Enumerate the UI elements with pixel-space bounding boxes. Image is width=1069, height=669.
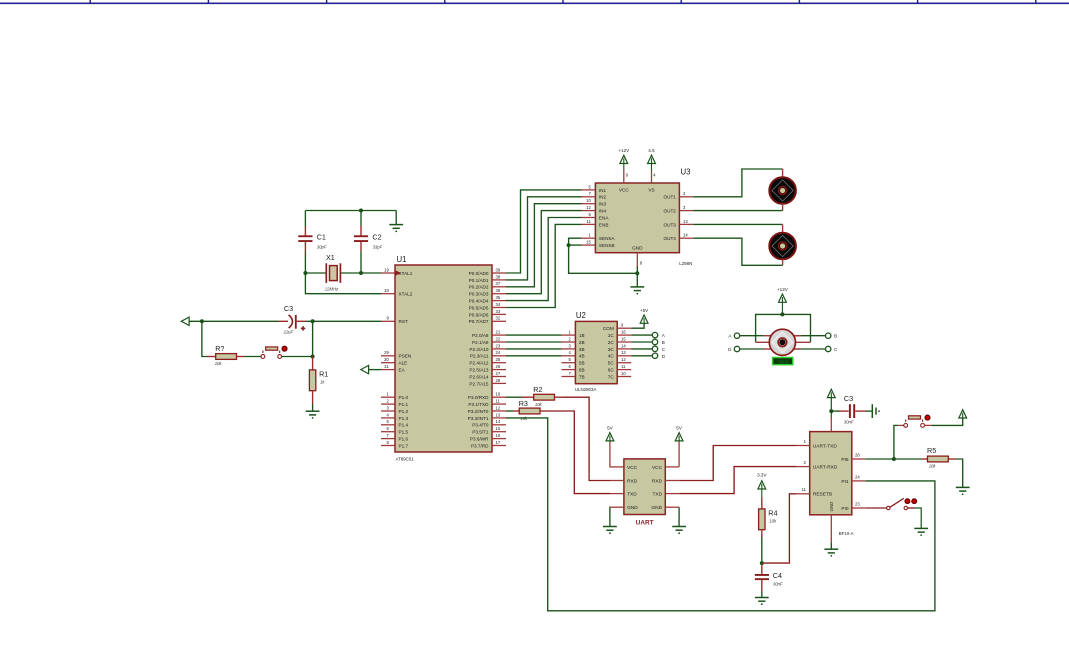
- svg-text:10k: 10k: [535, 402, 543, 407]
- svg-text:BF10-A: BF10-A: [839, 531, 854, 536]
- svg-text:13: 13: [496, 412, 501, 417]
- wire P0.3 to U3 IN: [506, 211, 582, 294]
- svg-text:1C: 1C: [608, 333, 615, 338]
- svg-text:11: 11: [586, 219, 591, 224]
- U1 pin 7 P1.6 stub: [381, 438, 395, 440]
- svg-text:27: 27: [496, 371, 501, 376]
- node RST-left junction: [200, 319, 204, 323]
- svg-text:VCC: VCC: [627, 465, 638, 471]
- U2 pin 9 COM stub: [617, 327, 631, 329]
- capacitor C5 (30nF decoupling): [849, 404, 855, 418]
- U3 pin 14 OUT4 stub: [679, 237, 693, 239]
- input terminal (RST net): [181, 317, 189, 325]
- svg-text:B: B: [834, 334, 837, 339]
- U1 pin 14 P3.4/T0 stub: [492, 424, 506, 426]
- U1 pin 15 P3.5/T1 stub: [492, 431, 506, 433]
- U1 pin 16 P3.6/WR stub: [492, 438, 506, 440]
- svg-text:22uF: 22uF: [283, 330, 294, 335]
- svg-text:TXD: TXD: [652, 492, 662, 498]
- svg-text:+5V: +5V: [640, 308, 649, 313]
- wire U2 4C to terminal D: [631, 355, 652, 357]
- svg-text:29: 29: [384, 350, 389, 355]
- UART left pin TXD stub: [610, 493, 624, 495]
- capacitor C4 bottom lead: [761, 580, 763, 592]
- svg-text:C2: C2: [372, 233, 381, 242]
- resistor R3 left lead: [513, 410, 519, 412]
- svg-text:28: 28: [496, 378, 501, 383]
- svg-text:11: 11: [496, 399, 501, 404]
- svg-text:R4: R4: [768, 508, 777, 517]
- svg-text:4.5: 4.5: [648, 148, 655, 153]
- ground (UART right): [672, 527, 686, 535]
- svg-text:12MHz: 12MHz: [325, 287, 339, 292]
- U1 pin 17 P3.7/RD stub: [492, 445, 506, 447]
- svg-text:P3.1/TXD: P3.1/TXD: [468, 402, 489, 407]
- svg-text:16: 16: [496, 433, 501, 438]
- svg-text:TXD: TXD: [627, 492, 637, 498]
- svg-text:SENSB: SENSB: [599, 243, 615, 248]
- U1 pin 8 P1.7 stub: [381, 445, 395, 447]
- svg-text:ENB: ENB: [599, 222, 609, 227]
- svg-text:22: 22: [496, 336, 501, 341]
- wire U3 VS power stem: [651, 164, 653, 170]
- svg-text:GND: GND: [651, 505, 662, 511]
- wire P0.2 to U3 IN: [506, 204, 582, 287]
- wire UART VCC-left to 5V: [609, 441, 611, 467]
- svg-text:SENSA: SENSA: [599, 236, 616, 241]
- svg-text:P1.2: P1.2: [399, 409, 409, 414]
- wire sense to gnd rail: [569, 245, 638, 273]
- resistor R3: [519, 408, 540, 414]
- U3 pin 9 VCC stub: [623, 170, 625, 184]
- ground (module): [824, 549, 838, 557]
- resistor R4 top lead: [761, 498, 763, 509]
- wire PI5 to R5: [865, 458, 921, 460]
- svg-text:10k: 10k: [929, 464, 937, 469]
- wire R1 to ground: [312, 404, 314, 411]
- svg-text:30nF: 30nF: [773, 582, 783, 587]
- wire to ground right: [395, 211, 397, 225]
- svg-text:OUT1: OUT1: [664, 195, 677, 200]
- module bottom pin stub: [830, 515, 832, 543]
- U1 pin 34 P0.5/AD5 stub: [492, 307, 506, 309]
- U1 pin 9 RST stub: [381, 320, 395, 322]
- module top pin stub: [830, 418, 832, 432]
- svg-text:P1.3: P1.3: [399, 416, 409, 421]
- resistor R? right lead: [237, 356, 245, 358]
- U2 pin 15 2C stub: [617, 341, 631, 343]
- U2 pin 13 4C stub: [617, 355, 631, 357]
- mcu U1 body: [395, 265, 492, 452]
- svg-text:R5: R5: [927, 446, 936, 455]
- power (PI5 button): [959, 410, 967, 418]
- svg-text:15: 15: [586, 240, 591, 245]
- U1 pin 35 P0.4/AD4 stub: [492, 300, 506, 302]
- svg-text:36: 36: [496, 288, 501, 293]
- U1 pin 32 P0.7/AD7 stub: [492, 320, 506, 322]
- node button/R1 junction: [311, 355, 315, 359]
- svg-text:24: 24: [855, 474, 860, 479]
- wire R3 to UART TXD: [547, 411, 610, 494]
- svg-text:33pF: 33pF: [373, 244, 383, 249]
- svg-text:ENA: ENA: [599, 215, 609, 220]
- svg-text:25: 25: [496, 357, 501, 362]
- crystal X1 left lead: [305, 272, 326, 274]
- ground (R5): [956, 487, 970, 495]
- driver U3 body: [595, 183, 679, 253]
- U1 pin 26 P2.5/A13 stub: [492, 369, 506, 371]
- node C1/X1/XTAL2 junction: [303, 271, 307, 275]
- resistor R2: [534, 394, 555, 400]
- svg-text:AT89C51: AT89C51: [396, 457, 415, 462]
- svg-text:13: 13: [621, 350, 626, 355]
- svg-text:30: 30: [384, 357, 389, 362]
- input terminal (EA): [361, 365, 369, 373]
- svg-text:7C: 7C: [608, 374, 615, 379]
- U3 pin 5 IN1 stub: [582, 189, 596, 191]
- U2 pin 14 3C stub: [617, 348, 631, 350]
- motor M1 (DC): [769, 177, 796, 204]
- svg-text:C1: C1: [317, 233, 326, 242]
- wire stepper common rail: [756, 314, 811, 342]
- terminal A: [734, 333, 739, 338]
- U1 pin 30 ALE stub: [381, 362, 395, 364]
- terminal B: [826, 333, 831, 338]
- wire stepper to B: [794, 335, 826, 337]
- svg-text:PI5: PI5: [841, 457, 849, 463]
- svg-text:VCC: VCC: [619, 188, 629, 193]
- wire P3.0 to R2: [506, 396, 522, 398]
- U3 pin 2 OUT1 stub: [679, 196, 693, 198]
- wire stepper to C: [794, 348, 826, 350]
- svg-text:UART-RXD: UART-RXD: [813, 465, 838, 471]
- svg-text:RXD: RXD: [652, 478, 663, 484]
- svg-text:+12V: +12V: [777, 287, 789, 292]
- U3 pin 12 IN4 stub: [582, 210, 596, 212]
- svg-text:24: 24: [496, 350, 501, 355]
- ground (UART left): [603, 527, 617, 535]
- wire U2 1C to terminal A: [631, 334, 652, 336]
- motor2 top pin: [782, 224, 784, 233]
- U1 pin 10 P3.0/RXD stub: [492, 396, 506, 398]
- U1 pin 4 P1.3 stub: [381, 417, 395, 419]
- power 5V (UART right): [675, 433, 683, 441]
- capacitor C1: [298, 235, 312, 242]
- bluetooth module U4 body: [810, 432, 852, 515]
- wire OUT3 to motor2: [693, 223, 782, 225]
- svg-text:R?: R?: [215, 344, 224, 353]
- resistor R1 bottom lead: [312, 391, 314, 404]
- U2 pin 12 5C stub: [617, 362, 631, 364]
- wire P3.2 to R3: [506, 410, 513, 412]
- U3 pin 1 SENSA stub: [582, 237, 596, 239]
- stepper motor body: [769, 329, 795, 355]
- terminal A (U2 out): [652, 332, 657, 337]
- svg-text:P3.4/T0: P3.4/T0: [472, 423, 489, 428]
- capacitor C3 (polarized): [289, 315, 297, 329]
- UART left pin GND stub: [610, 506, 624, 508]
- U3 pin 4 VS stub: [651, 170, 653, 184]
- svg-text:IN2: IN2: [599, 195, 607, 200]
- power +5V (U2 COM): [640, 315, 648, 323]
- wire UART VCC-right to 5V: [678, 441, 680, 467]
- svg-text:31: 31: [384, 364, 389, 369]
- U1 pin 5 P1.4 stub: [381, 424, 395, 426]
- wire motor1 to OUT2: [693, 210, 782, 212]
- node top-rail/C2 junction: [359, 209, 363, 213]
- uart module body: [624, 459, 665, 515]
- svg-text:30nF: 30nF: [844, 420, 854, 425]
- wire A to stepper: [740, 335, 763, 337]
- svg-text:IN4: IN4: [599, 209, 607, 214]
- capacitor C2: [354, 235, 368, 242]
- svg-text:P0.2/AD2: P0.2/AD2: [469, 285, 489, 290]
- U1 pin 21 P2.0/A8 stub: [492, 334, 506, 336]
- U1 pin 39 P0.0/AD0 stub: [492, 272, 506, 274]
- ruler tick marks: [90, 0, 1036, 3]
- driver U2 body: [575, 321, 617, 383]
- svg-text:P3.6/WR: P3.6/WR: [470, 437, 489, 442]
- svg-text:GND: GND: [829, 502, 834, 512]
- svg-text:23: 23: [855, 501, 860, 506]
- svg-text:P3.0/RXD: P3.0/RXD: [468, 395, 489, 400]
- wire EA: [369, 369, 381, 371]
- svg-text:10: 10: [621, 371, 626, 376]
- svg-text:10k: 10k: [769, 518, 777, 523]
- svg-text:10k: 10k: [215, 361, 223, 366]
- U3 pin 7 IN2 stub: [582, 196, 596, 198]
- svg-text:11: 11: [621, 364, 626, 369]
- power 3.3V: [758, 481, 766, 489]
- svg-text:EA: EA: [399, 368, 406, 373]
- wire R? to button: [244, 356, 261, 358]
- UART right pin GND stub: [665, 506, 679, 508]
- svg-text:16: 16: [621, 330, 626, 335]
- wire P0.1 to U3 IN: [506, 197, 582, 280]
- U1 pin 23 P2.2/A10 stub: [492, 348, 506, 350]
- wire U3 VCC power stem: [623, 164, 625, 170]
- U2 pin 16 1C stub: [617, 334, 631, 336]
- U2 pin 2 2B stub: [562, 341, 576, 343]
- svg-text:5V: 5V: [607, 426, 614, 431]
- U2 pin 5 5B stub: [562, 362, 576, 364]
- capacitor C4 top lead: [761, 563, 763, 575]
- svg-text:R2: R2: [533, 385, 542, 394]
- svg-text:P2.3/A11: P2.3/A11: [470, 354, 489, 359]
- U1 pin 27 P2.6/A14 stub: [492, 376, 506, 378]
- wire button branch up: [894, 425, 898, 459]
- svg-text:P3.5/T1: P3.5/T1: [472, 430, 489, 435]
- svg-text:P2.1/A9: P2.1/A9: [472, 340, 489, 345]
- U1 pin 33 P0.6/AD6 stub: [492, 313, 506, 315]
- power +12V (stepper): [779, 294, 787, 302]
- U3 pin 3 OUT2 stub: [679, 210, 693, 212]
- wire D to stepper: [740, 348, 763, 350]
- sheet border ruler line: [0, 2, 1069, 4]
- wire R4 down to C4 node: [761, 537, 763, 563]
- ground (U3): [630, 287, 644, 295]
- U1 pin 31 EA stub: [381, 369, 395, 371]
- U2 pin 10 7C stub: [617, 376, 631, 378]
- svg-text:PI1: PI1: [841, 479, 849, 485]
- svg-text:12: 12: [586, 205, 591, 210]
- svg-text:P3.3/INT1: P3.3/INT1: [468, 416, 489, 421]
- wire XTAL1: [361, 272, 381, 274]
- U1 pin 25 P2.4/A12 stub: [492, 362, 506, 364]
- svg-text:U3: U3: [681, 168, 691, 177]
- wire RST right: [306, 320, 381, 322]
- svg-text:5B: 5B: [579, 361, 585, 366]
- capacitor C1 top lead: [304, 211, 306, 226]
- svg-text:P1.4: P1.4: [399, 423, 409, 428]
- wire P2.1 to U2: [506, 341, 562, 343]
- svg-text:35: 35: [496, 295, 501, 300]
- U2 pin 6 6B stub: [562, 369, 576, 371]
- U1 pin 22 P2.1/A9 stub: [492, 341, 506, 343]
- svg-text:VCC: VCC: [652, 465, 663, 471]
- U1 pin 19 XTAL1 stub: [381, 272, 395, 274]
- svg-text:P1.6: P1.6: [399, 437, 409, 442]
- wire U2 3C to terminal C: [631, 348, 652, 350]
- svg-text:U2: U2: [576, 311, 586, 320]
- resistor R3 right lead: [540, 410, 547, 412]
- wire R2 to UART RXD: [562, 397, 610, 480]
- ground (R1): [306, 411, 320, 419]
- svg-text:1B: 1B: [579, 333, 585, 338]
- svg-text:ULN2803A: ULN2803A: [575, 387, 597, 392]
- U3 pin 6 ENA stub: [582, 217, 596, 219]
- svg-text:P2.6/A14: P2.6/A14: [469, 374, 489, 379]
- U3 pin 13 OUT3 stub: [679, 223, 693, 225]
- svg-text:5C: 5C: [608, 361, 615, 366]
- switch SW1 (PI0): [887, 498, 917, 509]
- module pin 24 PI1 stub: [852, 480, 866, 482]
- wire U3 GND down: [636, 266, 638, 273]
- svg-text:P2.7/A15: P2.7/A15: [469, 381, 489, 386]
- svg-text:PSEN: PSEN: [399, 354, 412, 359]
- svg-text:13: 13: [683, 219, 688, 224]
- svg-text:P1.5: P1.5: [399, 430, 409, 435]
- terminal D (U2 out): [652, 353, 657, 358]
- wire R5 to ground: [956, 459, 963, 487]
- wire SENSA: [569, 238, 582, 245]
- U2 pin 11 6C stub: [617, 369, 631, 371]
- U2 pin 1 1B stub: [562, 334, 576, 336]
- wire RST branch down: [312, 321, 314, 356]
- U1 pin 2 P1.1 stub: [381, 403, 395, 405]
- wire module vcc node: [830, 398, 832, 418]
- U1 pin 37 P0.2/AD2 stub: [492, 286, 506, 288]
- wire P3.3 to module PI1 (long): [506, 418, 935, 611]
- svg-text:XTAL2: XTAL2: [399, 292, 413, 297]
- module pin 23 PI0 stub: [852, 507, 866, 509]
- motor1 top pin: [782, 169, 784, 178]
- wire RESETB to R4/C4 node: [762, 494, 796, 563]
- U1 pin 3 P1.2 stub: [381, 410, 395, 412]
- pushbutton (PI5): [904, 415, 930, 427]
- wire P2.0 to U2: [506, 334, 562, 336]
- svg-text:3C: 3C: [608, 347, 615, 352]
- node stepper common junction: [780, 312, 784, 316]
- wire PI0 to switch: [865, 507, 886, 509]
- svg-text:P0.0/AD0: P0.0/AD0: [469, 271, 489, 276]
- U1 pin 6 P1.5 stub: [381, 431, 395, 433]
- svg-text:P2.0/A8: P2.0/A8: [472, 333, 489, 338]
- svg-text:P0.5/AD5: P0.5/AD5: [469, 305, 489, 310]
- stepper phase D pin: [763, 348, 771, 350]
- node X1/C2/XTAL1 junction: [359, 271, 363, 275]
- resistor R1 top lead: [312, 357, 314, 370]
- U2 pin 3 3B stub: [562, 348, 576, 350]
- resistor R5 left lead: [922, 458, 928, 460]
- svg-text:38: 38: [496, 274, 501, 279]
- U3 pin 8 GND stub: [636, 253, 638, 267]
- svg-text:12: 12: [621, 357, 626, 362]
- svg-text:10: 10: [496, 392, 501, 397]
- power (module VCC): [827, 389, 835, 397]
- svg-text:P0.3/AD3: P0.3/AD3: [469, 292, 489, 297]
- U1 pin 38 P0.1/AD1 stub: [492, 279, 506, 281]
- power 4.5 (U3 VS): [648, 155, 656, 163]
- pushbutton (PI5) left contact lead: [898, 424, 904, 426]
- svg-text:U1: U1: [397, 255, 407, 264]
- resistor R2 right lead: [555, 396, 563, 398]
- wire XTAL2: [305, 273, 381, 294]
- wire P0.0 to U3 IN: [506, 190, 582, 273]
- wire 3.3V to R4: [761, 489, 763, 498]
- wire UART GND-left down: [609, 507, 611, 526]
- U2 pin 7 7B stub: [562, 376, 576, 378]
- svg-text:15: 15: [496, 426, 501, 431]
- wire P2.2 to U2: [506, 348, 562, 350]
- svg-text:ALE: ALE: [399, 361, 408, 366]
- svg-text:GND: GND: [627, 505, 638, 511]
- svg-text:GND: GND: [632, 246, 643, 251]
- svg-text:P2.4/A12: P2.4/A12: [469, 361, 489, 366]
- svg-text:14: 14: [621, 343, 626, 348]
- node SENSA/SENSB junction: [567, 243, 571, 247]
- svg-text:33: 33: [496, 309, 501, 314]
- node RST/R1 junction: [311, 319, 315, 323]
- svg-text:12: 12: [496, 405, 501, 410]
- svg-text:IN3: IN3: [599, 202, 607, 207]
- svg-text:7B: 7B: [579, 374, 585, 379]
- svg-text:IN1: IN1: [599, 188, 607, 193]
- wire UART RXD-right to module TXD: [679, 446, 796, 481]
- svg-text:RXD: RXD: [627, 478, 638, 484]
- UART right pin RXD stub: [665, 480, 679, 482]
- svg-text:2B: 2B: [579, 340, 585, 345]
- node U3 gnd junction: [635, 271, 639, 275]
- svg-text:P2.2/A10: P2.2/A10: [469, 347, 489, 352]
- svg-text:3B: 3B: [579, 347, 585, 352]
- svg-text:P0.7/AD7: P0.7/AD7: [469, 319, 489, 324]
- wire reset-arrow branch down: [202, 321, 208, 356]
- stepper phase C pin: [794, 348, 801, 350]
- wire C5 to side ground: [866, 410, 872, 412]
- power +12V (U3 VCC): [620, 155, 628, 163]
- svg-text:P3.2/INT0: P3.2/INT0: [468, 409, 489, 414]
- motor2 bottom pin: [782, 259, 784, 265]
- stepper common right pin: [795, 341, 811, 343]
- capacitor C3 right lead: [297, 320, 306, 322]
- ground (crystal rail): [389, 225, 403, 233]
- stepper common left pin: [756, 341, 770, 343]
- terminal C: [826, 346, 831, 351]
- U1 pin 18 XTAL2 stub: [381, 293, 395, 295]
- U3 pin 11 ENB stub: [582, 223, 596, 225]
- svg-text:P0.6/AD6: P0.6/AD6: [469, 312, 489, 317]
